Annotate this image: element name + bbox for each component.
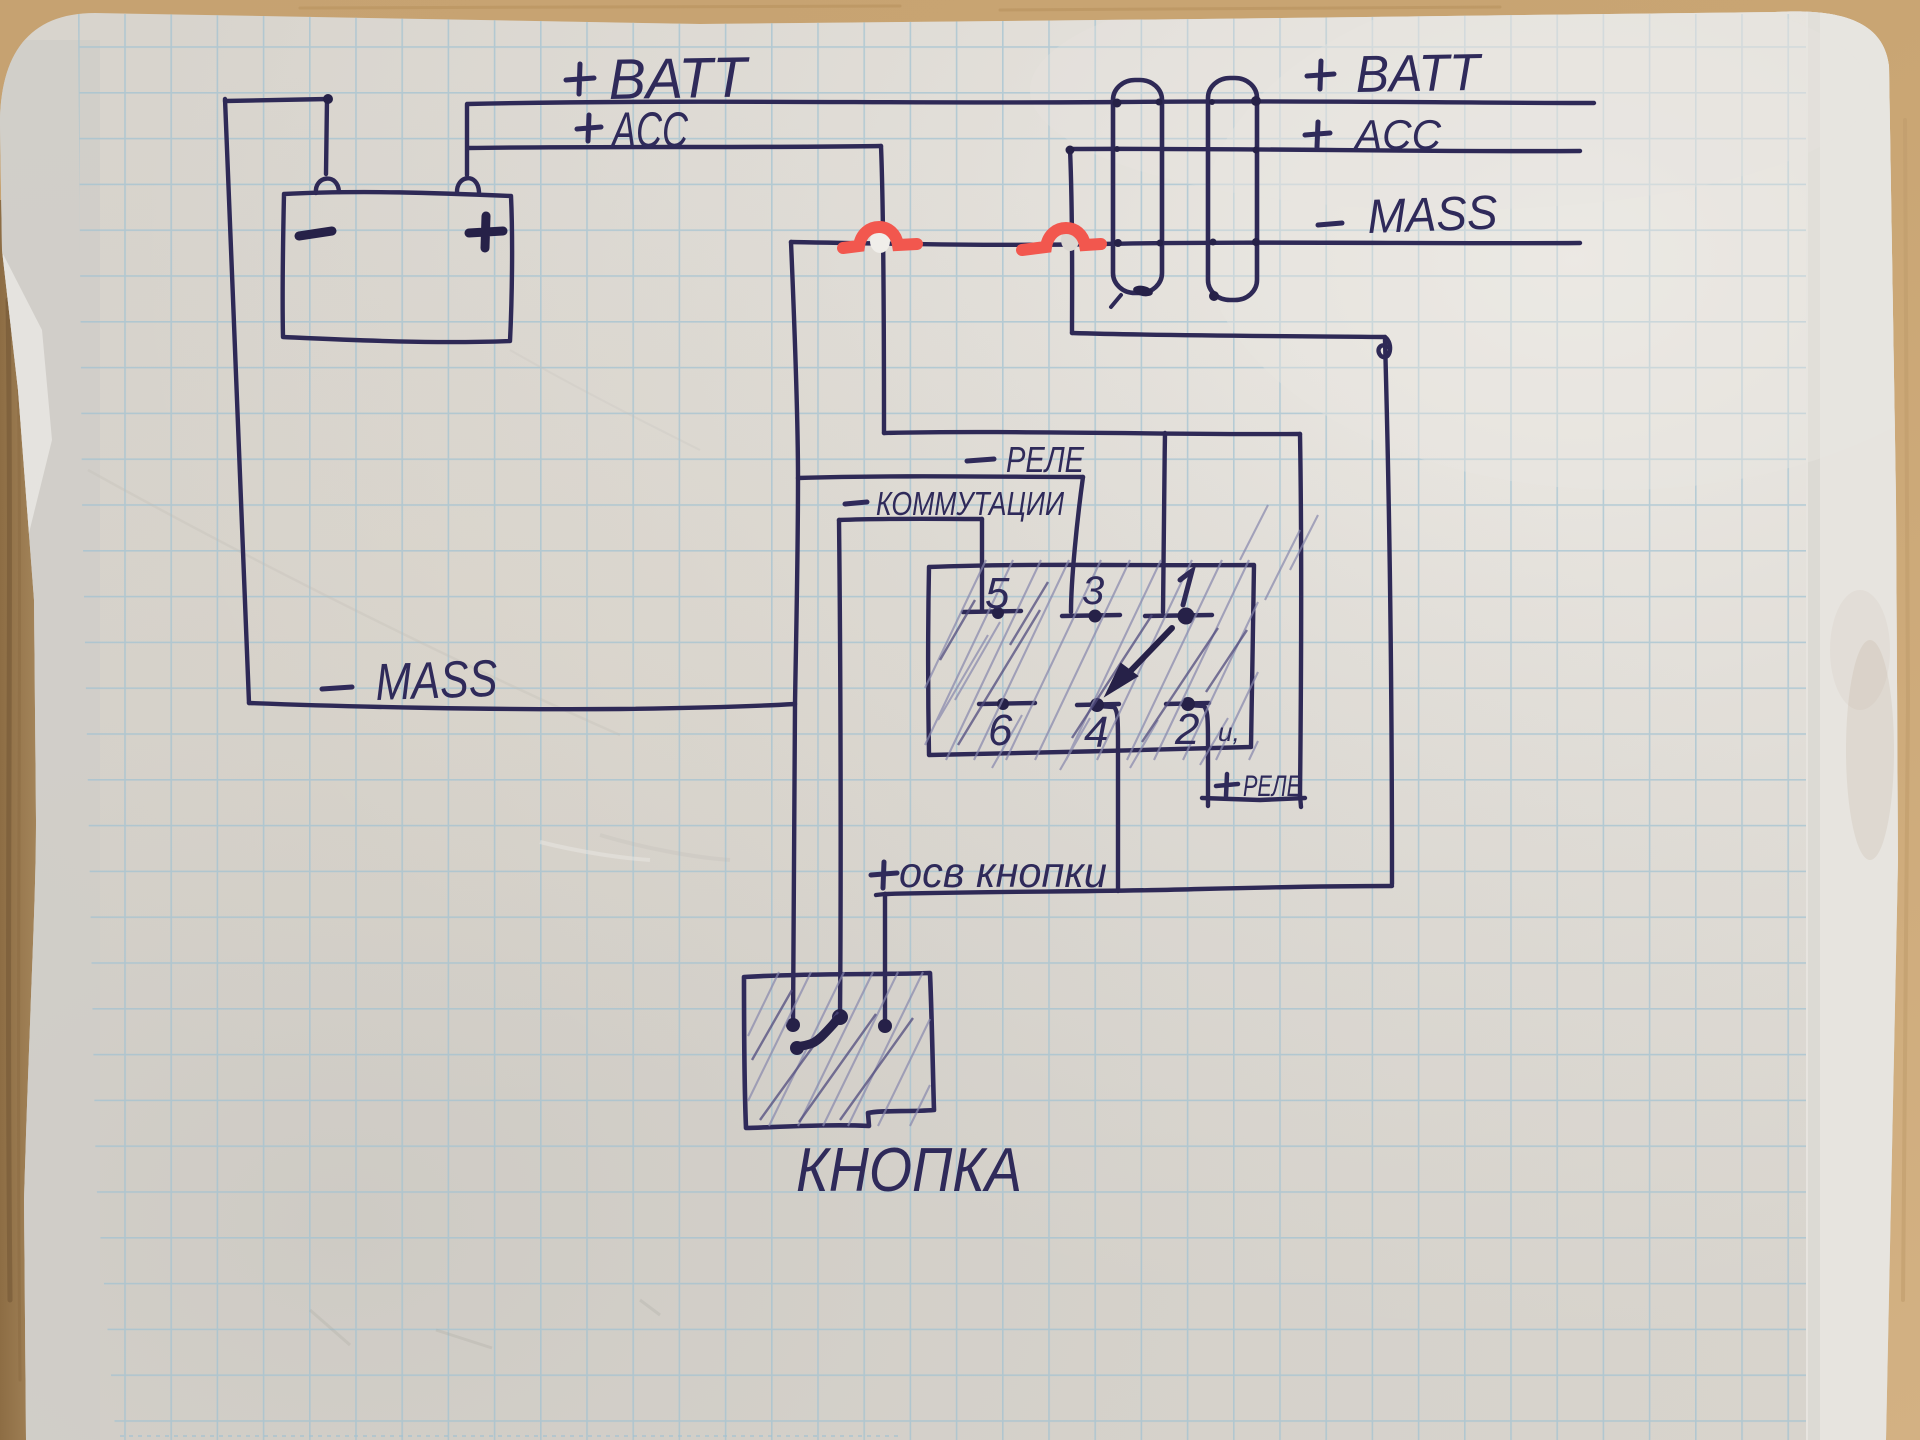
- right gridless strip: [1806, 10, 1906, 1440]
- wire +osv knopki horizontal: [885, 886, 1392, 894]
- wire -MASS middle with label, crosses verticals: [791, 242, 1580, 245]
- wire +BATT top: [467, 101, 1594, 104]
- white fold highlight top-left: [2, 252, 52, 545]
- label -MASS right minus: [1318, 223, 1342, 225]
- battery minus terminal stem: [326, 99, 327, 174]
- battery plus terminal stem: [465, 105, 469, 175]
- wire -MASS bottom-left horizontal: [249, 703, 795, 709]
- svg-text:ACC: ACC: [1352, 111, 1442, 158]
- button hatching: [748, 972, 930, 1126]
- node battery minus top corner: [323, 94, 333, 104]
- wire battery-negative to ground left vertical: [225, 99, 249, 703]
- svg-text:РЕЛЕ: РЕЛЕ: [1243, 770, 1302, 803]
- battery minus terminal loop: [316, 179, 339, 193]
- wire -KOMMUT horizontal: [839, 519, 982, 520]
- wire +ACC right segment: [1070, 149, 1580, 151]
- red crossing hop 2: [1022, 228, 1101, 250]
- relay pin1 stem: [1163, 433, 1165, 612]
- wire overshoot at +RELE corner: [1206, 797, 1210, 806]
- wire long vertical x793 from MASS wire to button pin1: [791, 242, 798, 1025]
- connector X1 capsule right: [1208, 78, 1257, 300]
- pen loop at corner x1385: [1379, 337, 1391, 357]
- button switch arm: [797, 1019, 838, 1047]
- wire -RELE drop to relay pin3: [1071, 477, 1083, 612]
- paper patch under red hop 2: [1061, 229, 1079, 251]
- faint pencil smudges bottom-left: [310, 1300, 660, 1348]
- wire overshoot at osv corner: [876, 894, 885, 895]
- white patch under red hop 1: [870, 229, 890, 253]
- right edge smudge: [1846, 640, 1894, 860]
- battery GB1 box: [283, 192, 513, 342]
- relay pin dots: [1089, 610, 1102, 623]
- wire top-left horizontal to battery minus: [225, 99, 328, 101]
- battery plus terminal loop: [457, 178, 479, 193]
- svg-text:КОММУТАЦИИ: КОММУТАЦИИ: [876, 485, 1064, 522]
- relay pin5 bar: [963, 611, 1021, 612]
- node capsule crossings ACC: [1114, 146, 1120, 152]
- relay pin6 bar: [979, 703, 1035, 704]
- wire +RELE horizontal: [1202, 798, 1305, 800]
- label +ACC right plus: [1305, 122, 1330, 147]
- left gridless gray strip: [0, 40, 100, 1440]
- wire overshoot V3 bottom: [1300, 795, 1301, 807]
- battery plus symbol: [469, 216, 503, 248]
- svg-text:осв кнопки: осв кнопки: [899, 849, 1107, 897]
- svg-text:3: 3: [1082, 569, 1104, 613]
- svg-text:BATT: BATT: [1355, 44, 1483, 104]
- wire vertical ACC drop at x880: [881, 146, 884, 433]
- label +osv knopki plus: [871, 862, 897, 888]
- wire +ACC left segment: [468, 146, 881, 148]
- button S1 box: [744, 973, 934, 1128]
- node capsule crossings MASS: [1114, 239, 1122, 247]
- svg-text:2: 2: [1174, 705, 1199, 754]
- node ACC right corner: [1066, 146, 1075, 155]
- svg-text:5: 5: [985, 569, 1010, 618]
- svg-text:u,: u,: [1218, 717, 1240, 747]
- wire relay pin4 down to osv knopki: [1098, 706, 1118, 891]
- relay arrow: [1118, 628, 1172, 684]
- relay pin3 bar: [1062, 615, 1120, 616]
- node capsule crossings BATT: [1113, 99, 1122, 108]
- node capsule1 bottom blob: [1132, 284, 1154, 298]
- node capsule1 bottom tail: [1111, 295, 1121, 307]
- label +RELE plus: [1216, 774, 1238, 796]
- relay hatching: [925, 505, 1318, 770]
- relay K1 box: [928, 565, 1254, 755]
- label +ACC left plus: [577, 115, 601, 141]
- battery minus symbol: [299, 231, 332, 236]
- node capsule2 bottom blob: [1209, 291, 1219, 301]
- label -MASS left minus: [322, 687, 352, 689]
- svg-text:4: 4: [1084, 708, 1108, 757]
- wire relay pin2 down to +RELE corner: [1188, 705, 1208, 797]
- pin number 1: [1180, 571, 1192, 605]
- wire button pin3 drop: [883, 894, 887, 1026]
- table left dark strip: [0, 200, 60, 1440]
- svg-text:6: 6: [988, 706, 1013, 755]
- wire vertical x1300 down to +RELE: [1300, 434, 1301, 795]
- wire -KOMMUT drop to relay pin5: [980, 519, 984, 611]
- label +BATT right plus: [1307, 61, 1334, 89]
- label -RELE minus: [967, 459, 994, 461]
- button pin dots: [786, 1018, 800, 1032]
- svg-text:РЕЛЕ: РЕЛЕ: [1006, 439, 1085, 480]
- red crossing hop 1: [843, 227, 917, 248]
- svg-text:MASS: MASS: [374, 650, 498, 712]
- relay pin2 bar: [1166, 703, 1209, 704]
- relay pin1 bar: [1145, 615, 1212, 616]
- svg-text:ACC: ACC: [610, 102, 689, 158]
- relay pin4 bar: [1077, 704, 1119, 705]
- wire horizontal y335 to right vertical: [1072, 333, 1385, 337]
- wire horizontal y433 to right: [884, 432, 1300, 434]
- svg-text:КНОПКА: КНОПКА: [796, 1136, 1022, 1205]
- svg-text:MASS: MASS: [1367, 186, 1499, 244]
- wire right vertical x1390 down: [1385, 340, 1392, 884]
- wire vertical x1071 from ACC down: [1070, 149, 1072, 333]
- wire long vertical x840 to button pin2: [839, 520, 841, 1016]
- connector X1 capsule left: [1113, 80, 1162, 293]
- label +BATT left plus: [566, 64, 594, 94]
- creases: [88, 470, 620, 735]
- label -KOMMUTACII minus: [845, 502, 867, 504]
- wire -RELE horizontal: [798, 476, 1083, 478]
